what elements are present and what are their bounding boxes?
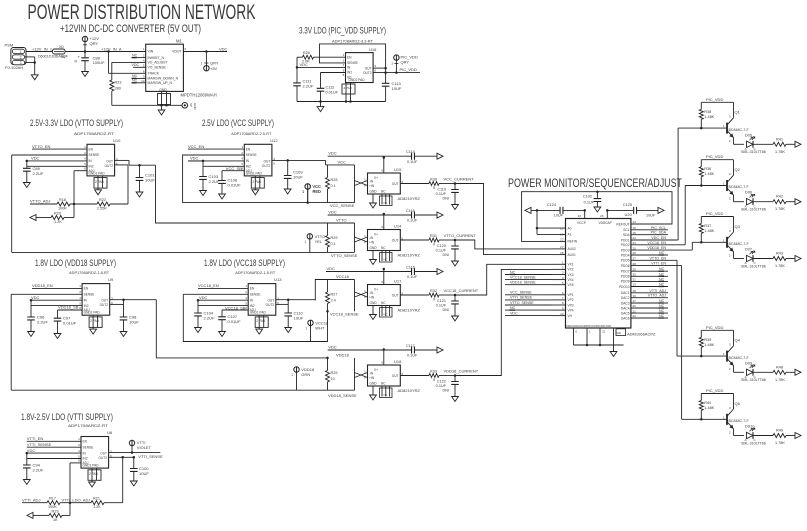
nc pads U18	[380, 388, 393, 398]
svg-text:SCL: SCL	[623, 228, 629, 232]
wire OUT U15 to R30	[400, 183, 429, 185]
svg-text:1.8V LDO (VCC18 SUPPLY): 1.8V LDO (VCC18 SUPPLY)	[204, 258, 285, 268]
capacitor C102 0.1UF	[596, 192, 598, 199]
svg-text:ADP1708ARDZ-RT: ADP1708ARDZ-RT	[68, 423, 109, 428]
svg-text:280: 280	[115, 87, 121, 91]
net VDC wire row y215	[328, 214, 412, 216]
wire VTTO sense rail	[12, 251, 355, 253]
svg-text:C122: C122	[437, 380, 446, 384]
svg-text:R36: R36	[704, 167, 711, 171]
wire R21 to divider vertical	[104, 502, 123, 504]
svg-text:DAC2: DAC2	[621, 296, 630, 300]
nc pads U15	[380, 196, 393, 206]
net VDC wire row y271.5	[326, 271, 411, 273]
wire SENSE to loop	[11, 293, 82, 295]
svg-text:U8: U8	[107, 430, 113, 435]
power flag VCC18 WHT	[308, 320, 313, 325]
svg-text:VTTO: VTTO	[336, 218, 347, 223]
power flag +12V QRY	[82, 36, 87, 41]
nc pads U14	[380, 253, 393, 263]
wire emitter Q2	[733, 195, 735, 202]
svg-text:NC: NC	[384, 313, 388, 317]
wire OUT U14 to R31	[400, 239, 429, 241]
transistor Q5 BC848C-7-F	[733, 394, 735, 410]
svg-text:0.1UF: 0.1UF	[436, 249, 447, 253]
led D07 SML-310LTT86	[747, 255, 754, 261]
svg-text:VTTO_CURRENT: VTTO_CURRENT	[444, 233, 477, 238]
svg-text:R30: R30	[430, 177, 437, 181]
svg-text:1: 1	[291, 373, 293, 377]
wire OUT U17 to R32	[400, 294, 429, 296]
svg-text:VTTO_SENSE: VTTO_SENSE	[331, 253, 358, 258]
ground U18	[372, 386, 374, 395]
svg-text:SP: SP	[189, 103, 193, 107]
svg-text:R39: R39	[704, 338, 711, 342]
svg-text:REFIN: REFIN	[568, 240, 578, 244]
svg-text:PIC_VDD: PIC_VDD	[706, 388, 723, 393]
pin VP4	[552, 309, 566, 311]
resistor R41 1.78K	[773, 142, 786, 146]
resistor R40 1.48K	[700, 394, 702, 401]
ground C109	[284, 189, 291, 194]
svg-text:R27: R27	[331, 293, 338, 297]
svg-text:U20: U20	[625, 212, 633, 217]
svg-text:21: 21	[560, 226, 564, 230]
svg-text:1: 1	[305, 240, 307, 244]
svg-text:VX1: VX1	[568, 263, 574, 267]
port arrow Q4 out	[795, 369, 801, 375]
svg-text:SENSE: SENSE	[347, 61, 358, 65]
svg-text:Q3: Q3	[735, 224, 741, 229]
svg-text:XD: XD	[59, 45, 64, 49]
svg-text:R22: R22	[99, 198, 106, 202]
power flag VCC RED	[305, 184, 310, 189]
svg-text:VDC: VDC	[328, 151, 337, 156]
svg-text:EN: EN	[250, 287, 255, 291]
wire OUT U18 to R33	[400, 375, 429, 377]
svg-text:28: 28	[560, 251, 564, 255]
capacitor C109 10UF	[286, 159, 289, 162]
wire OUT to row3 step	[276, 299, 316, 301]
svg-text:R32: R32	[430, 289, 437, 293]
svg-text:ADP1708ARDZ-1.8-RT: ADP1708ARDZ-1.8-RT	[235, 270, 276, 275]
svg-text:ADP1708ARDZ-3.3-RT: ADP1708ARDZ-3.3-RT	[332, 39, 374, 44]
svg-text:IN2: IN2	[347, 71, 352, 75]
svg-text:U18: U18	[394, 359, 402, 364]
svg-text:VDC: VDC	[327, 266, 336, 271]
ground C88	[82, 72, 89, 77]
svg-text:C119: C119	[437, 188, 446, 192]
svg-text:D09: D09	[745, 361, 752, 365]
pin VX1	[552, 263, 566, 265]
svg-text:2.5V LDO (VCC SUPPLY): 2.5V LDO (VCC SUPPLY)	[202, 118, 274, 128]
ground U10 pad	[95, 190, 102, 195]
svg-text:VDC: VDC	[132, 63, 140, 67]
wire R19 to port arrow	[33, 514, 49, 516]
svg-text:VDC: VDC	[328, 344, 337, 349]
svg-text:POWER MONITOR/SEQUENCER/ADJUST: POWER MONITOR/SEQUENCER/ADJUST	[508, 178, 682, 190]
svg-text:VDC: VDC	[27, 448, 36, 453]
capacitor C114 0.1UF	[412, 153, 415, 160]
svg-text:R40: R40	[704, 401, 711, 405]
resistor R43 1.78K	[773, 257, 786, 261]
net VTTI_SENSE at VP2	[505, 299, 552, 301]
svg-text:DNI: DNI	[442, 389, 449, 393]
op-amp U17 AD8210YRZ	[368, 285, 401, 306]
wire OUT2 stub	[276, 303, 288, 305]
svg-text:VTTI_SENSE: VTTI_SENSE	[510, 296, 533, 300]
svg-text:0.1UF: 0.1UF	[436, 304, 447, 308]
capacitor C110 10UF	[287, 298, 290, 301]
ground U20	[613, 345, 615, 352]
fuse XD 1A	[53, 49, 66, 54]
svg-text:U14: U14	[394, 224, 402, 229]
svg-text:D6002J103DAHQF: D6002J103DAHQF	[38, 55, 68, 59]
svg-text:U13: U13	[274, 277, 282, 282]
pad U20 exposed	[616, 329, 626, 336]
svg-text:OUT: OUT	[392, 374, 399, 378]
svg-text:OUT: OUT	[392, 294, 399, 298]
ground M1	[161, 105, 163, 110]
port arrow Q2 out	[795, 199, 801, 205]
svg-text:GND1 PAD: GND1 PAD	[89, 171, 106, 175]
svg-text:VX5: VX5	[568, 283, 574, 287]
pad U9	[89, 317, 102, 328]
net VTTO_SENSE at VP3	[505, 304, 552, 306]
wire ADJ tap vertical	[73, 171, 75, 218]
svg-text:GND: GND	[370, 301, 378, 305]
svg-text:20: 20	[560, 233, 564, 237]
svg-text:2.55K: 2.55K	[97, 206, 107, 210]
svg-text:0: 0	[433, 242, 435, 246]
svg-text:EN: EN	[246, 147, 251, 151]
ground C97	[54, 334, 61, 339]
svg-text:OUT2: OUT2	[363, 71, 372, 75]
ground C101	[136, 192, 143, 197]
net VCC_SENSE at VP1	[505, 294, 552, 296]
bottom pads U20	[573, 328, 575, 345]
svg-text:VCC_SENSE: VCC_SENSE	[510, 291, 532, 295]
port arrow Q1 out	[795, 141, 801, 147]
pin VP1	[552, 294, 566, 296]
net VDC at VO_SENSE	[133, 66, 146, 68]
svg-text:ADP1708ARDZ-1.8-RT: ADP1708ARDZ-1.8-RT	[69, 270, 110, 275]
wire IN2 tie	[27, 458, 81, 460]
nc stub MARGIN_UP_N	[133, 82, 146, 84]
svg-text:10: 10	[560, 312, 564, 316]
wire PSM pin1 to fuse	[26, 51, 52, 53]
svg-text:PDO7: PDO7	[621, 270, 630, 274]
led DS10 SML-310LTT86	[747, 432, 754, 438]
svg-text:PIC_VDD: PIC_VDD	[400, 67, 417, 72]
wire base net vertical Q2	[684, 186, 686, 245]
capacitor C108 0.01UF	[218, 181, 226, 184]
svg-text:VDC: VDC	[199, 295, 208, 300]
svg-text:R33: R33	[430, 369, 437, 373]
ground C120	[452, 261, 459, 266]
net VDC wire to IN	[27, 452, 81, 454]
svg-text:VIOLET: VIOLET	[137, 445, 152, 450]
ground C104	[195, 328, 202, 333]
svg-text:DNI: DNI	[442, 308, 449, 312]
ground C102	[594, 207, 601, 212]
ground U12 pad	[252, 190, 259, 195]
monitor U20 ADM1066ACPZ	[566, 219, 631, 329]
port arrow right of C125	[658, 207, 664, 213]
ground C103	[200, 191, 207, 196]
wire ADJ tap vertical	[69, 463, 71, 516]
svg-text:OUT: OUT	[392, 239, 399, 243]
nc pads U17	[380, 308, 393, 318]
svg-text:IN2: IN2	[84, 304, 89, 308]
wire VCC sense loop	[183, 155, 355, 203]
resistor R18 100K	[57, 202, 70, 206]
input cross U14	[355, 237, 368, 242]
svg-text:A1: A1	[568, 233, 572, 237]
resistor R42 1.78K	[773, 200, 786, 204]
svg-text:ADP1708ARDZ-RT: ADP1708ARDZ-RT	[74, 131, 115, 136]
svg-text:GND: GND	[370, 246, 378, 250]
input cross U17	[355, 292, 368, 297]
nc stub MARGIN_DOWN_N	[133, 77, 146, 79]
svg-text:1.78K: 1.78K	[775, 207, 785, 211]
svg-text:V+: V+	[374, 176, 378, 180]
svg-text:V+: V+	[374, 368, 378, 372]
net VTTO_ADJ wire	[30, 203, 57, 205]
net-tie port SP GND	[182, 103, 188, 109]
svg-text:BC848C-7-F: BC848C-7-F	[729, 128, 750, 132]
svg-text:AD8210YRZ: AD8210YRZ	[398, 388, 421, 393]
wire VO_ADJUST to R23	[112, 61, 146, 63]
svg-text:SENSE: SENSE	[89, 153, 100, 157]
capacitor C107 0.01UF	[218, 317, 226, 320]
svg-text:0.1UF: 0.1UF	[436, 384, 447, 388]
input cross U15	[355, 181, 368, 186]
gnd rail 3.3V section	[297, 101, 386, 103]
svg-text:2.2UF: 2.2UF	[303, 83, 314, 88]
wire IN2 to C112	[321, 72, 346, 74]
ground C98	[120, 332, 127, 337]
resistor R49 1.78K	[773, 434, 786, 438]
power flag PIC_VDD QRY	[395, 71, 398, 74]
svg-text:OUT: OUT	[392, 182, 399, 186]
net VDD18_SENSE at VX5	[505, 284, 552, 286]
svg-text:D06: D06	[745, 191, 752, 195]
svg-text:VX4: VX4	[568, 278, 574, 282]
svg-text:+IN: +IN	[369, 184, 375, 188]
wire divider vertical to row	[122, 457, 124, 502]
svg-text:OUT2: OUT2	[100, 303, 109, 307]
vcc stub U15	[383, 158, 385, 174]
wire SENSE to loop	[183, 293, 248, 295]
svg-text:NC: NC	[510, 306, 516, 310]
svg-text:GND: GND	[370, 190, 378, 194]
svg-text:10UF: 10UF	[646, 214, 656, 218]
wire R20 to port arrow	[36, 217, 51, 219]
svg-text:AD8210YRZ: AD8210YRZ	[398, 308, 421, 313]
svg-text:AUX2: AUX2	[568, 247, 577, 251]
svg-text:100K: 100K	[58, 206, 67, 210]
pad U13	[255, 317, 268, 328]
svg-text:0.1UF: 0.1UF	[584, 201, 595, 205]
svg-text:VCC_EN: VCC_EN	[188, 144, 204, 149]
resistor R22 2.55K	[97, 202, 110, 206]
svg-text:NC: NC	[132, 53, 138, 57]
net VTTI_SENSE wire	[27, 446, 81, 448]
resistor R28 0.1	[327, 165, 329, 178]
wire VOUT to VDC	[183, 51, 227, 53]
svg-text:0: 0	[433, 378, 435, 382]
svg-text:PDO4: PDO4	[621, 253, 630, 257]
wire VTTO sense loop vertical	[11, 155, 13, 252]
svg-text:2 PAD: 2 PAD	[256, 319, 266, 323]
svg-text:26: 26	[600, 214, 604, 218]
svg-text:100UF: 100UF	[93, 60, 106, 65]
op-amp U14 AD8210YRZ	[368, 230, 401, 251]
svg-text:10UF: 10UF	[139, 471, 149, 476]
svg-text:R23: R23	[115, 81, 122, 85]
wire base Q3	[692, 241, 727, 243]
svg-text:SML-310LTT86: SML-310LTT86	[741, 264, 766, 268]
svg-text:QRY: QRY	[90, 41, 99, 46]
transistor Q4 BC848C-7-F	[733, 330, 735, 346]
pin VP3	[552, 304, 566, 306]
resistor R17 100K	[47, 501, 60, 505]
svg-text:VDDCAP: VDDCAP	[599, 221, 612, 225]
rail 3.3V left vertical	[296, 57, 298, 83]
ground C121	[452, 316, 459, 321]
svg-text:VCC18_SENSE: VCC18_SENSE	[330, 312, 359, 317]
net VDC at VH	[505, 315, 552, 317]
net VCC_SENSE stub at SD	[222, 170, 244, 172]
svg-text:DAC4: DAC4	[621, 306, 630, 310]
svg-text:R48: R48	[776, 365, 783, 369]
capacitor C120 0.1UF DNI	[454, 240, 456, 246]
wire base net vertical Q3	[691, 242, 693, 250]
svg-text:VCC18: VCC18	[336, 274, 350, 279]
svg-text:R49: R49	[776, 429, 783, 433]
capacitor C121 0.1UF DNI	[454, 295, 456, 301]
svg-text:2.2UF: 2.2UF	[204, 315, 215, 320]
svg-text:0: 0	[433, 297, 435, 301]
op-amp U18 AD8210YRZ	[368, 365, 401, 386]
wire OUT pins to output node	[373, 67, 386, 69]
svg-text:1.8V LDO (VDD18 SUPPLY): 1.8V LDO (VDD18 SUPPLY)	[35, 258, 116, 268]
port arrow VTTO dac	[30, 215, 36, 221]
svg-text:OUT2: OUT2	[262, 164, 271, 168]
svg-text:2.2UF: 2.2UF	[33, 171, 44, 176]
wire OUT to VCC row	[272, 159, 326, 161]
feedback loop REFOUT to REFIN	[522, 192, 672, 242]
capacitor C89 2.2UF	[26, 166, 28, 168]
svg-text:NC: NC	[132, 79, 138, 83]
svg-text:VDC: VDC	[31, 156, 40, 161]
capacitor C96 2.2UF	[30, 306, 32, 317]
resistor R25 10	[327, 358, 329, 371]
svg-text:2 PAD: 2 PAD	[89, 472, 99, 476]
svg-text:NC: NC	[381, 382, 386, 386]
svg-text:PSM: PSM	[5, 43, 14, 48]
svg-text:IN2: IN2	[89, 165, 94, 169]
wire A0 A1 tie	[536, 210, 538, 234]
svg-text:DAC3: DAC3	[621, 301, 630, 305]
capacitor C115 0.1UF	[412, 212, 415, 219]
svg-text:1: 1	[391, 62, 393, 66]
net VDC wire row y350	[328, 349, 412, 351]
svg-text:VTTI_SENSE: VTTI_SENSE	[27, 442, 52, 447]
resistor R31 0	[429, 238, 439, 242]
svg-text:1K: 1K	[53, 518, 58, 522]
svg-text:R31: R31	[430, 234, 437, 238]
ground C107	[219, 332, 226, 337]
svg-text:RED: RED	[313, 189, 322, 194]
svg-text:VCC18_SB: VCC18_SB	[225, 306, 246, 311]
resistor R23 280	[110, 80, 114, 91]
svg-text:1.78K: 1.78K	[775, 441, 785, 445]
net PIC_VDD wire Q1	[701, 101, 733, 103]
power flag VTTI VIOLET	[131, 451, 134, 454]
svg-text:C125: C125	[623, 203, 632, 207]
svg-text:10UF: 10UF	[294, 315, 304, 320]
led D06 SML-310LTT86	[747, 199, 754, 205]
svg-text:PIC_VDD: PIC_VDD	[706, 325, 723, 330]
ground U8 pad	[89, 482, 96, 487]
svg-text:VTTO_EN: VTTO_EN	[32, 144, 50, 149]
svg-text:PIC_VDD: PIC_VDD	[706, 154, 723, 159]
svg-text:VP4: VP4	[568, 308, 574, 312]
svg-text:1.48K: 1.48K	[704, 229, 714, 233]
port arrow C117	[437, 347, 443, 353]
vcc stub U18	[383, 350, 385, 366]
pad U12	[251, 178, 264, 189]
svg-text:1.78K: 1.78K	[775, 264, 785, 268]
svg-text:VDD18_SB: VDD18_SB	[58, 305, 79, 310]
svg-text:GND: GND	[193, 103, 197, 111]
svg-text:VP3: VP3	[568, 303, 574, 307]
svg-text:VTTI_LDO_ADJ: VTTI_LDO_ADJ	[62, 497, 91, 502]
wire VTTO to row2	[156, 165, 355, 223]
svg-text:PJ-102AH: PJ-102AH	[5, 65, 23, 70]
resistor R30 0	[429, 182, 439, 186]
svg-text:SENSE: SENSE	[250, 293, 261, 297]
wire IN2 tie	[27, 165, 87, 167]
svg-text:DNI: DNI	[442, 253, 449, 257]
svg-text:REFGNDAGNDPDOGNDGND PAD: REFGNDAGNDPDOGNDGND PAD	[567, 324, 612, 328]
svg-text:VTTO_ADJ: VTTO_ADJ	[648, 294, 667, 298]
capacitor C122 0.1UF DNI	[454, 376, 456, 382]
wire R22 to OUT2 vertical	[110, 203, 128, 205]
svg-text:R28: R28	[331, 178, 338, 182]
wire TRACK tie to VIN	[107, 50, 110, 53]
wire base Q5	[682, 418, 727, 420]
resistor R27 2.4	[327, 280, 329, 293]
regulator U12 ADP1708	[244, 144, 272, 176]
port arrow C116	[437, 269, 443, 275]
wire OUT2 to C100	[109, 456, 134, 458]
wire VCC18 sense loop	[183, 294, 327, 341]
ground C110	[285, 328, 292, 333]
svg-text:VO_SENSE: VO_SENSE	[148, 66, 167, 70]
svg-text:OUT: OUT	[106, 159, 113, 163]
svg-text:EN: EN	[89, 147, 94, 151]
svg-text:INHIBIT_N: INHIBIT_N	[148, 56, 165, 60]
port arrow Q5 out	[795, 433, 801, 439]
wire base net vertical Q5	[681, 266, 683, 420]
power flag VCC RED	[305, 184, 310, 189]
svg-text:AD8210YRZ: AD8210YRZ	[398, 253, 421, 258]
resistor R48 1.78K	[773, 370, 786, 374]
wire OUT2 to divider	[115, 164, 128, 166]
